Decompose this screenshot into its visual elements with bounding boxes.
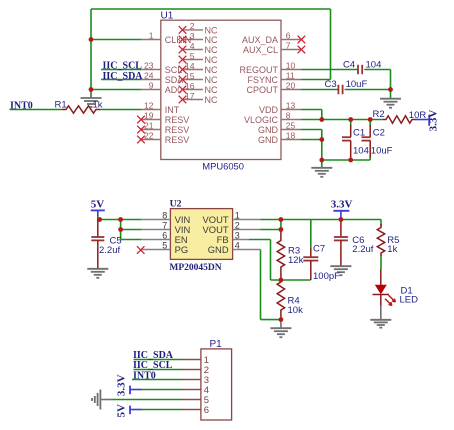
svg-text:5: 5 xyxy=(190,51,195,61)
svg-text:24: 24 xyxy=(144,70,154,80)
svg-text:AUX_DA: AUX_DA xyxy=(242,35,278,45)
svg-text:6: 6 xyxy=(162,230,167,240)
svg-text:INT0: INT0 xyxy=(10,100,33,111)
svg-text:NC: NC xyxy=(205,45,218,55)
svg-text:21: 21 xyxy=(144,120,154,130)
svg-text:PG: PG xyxy=(175,244,189,255)
svg-text:15: 15 xyxy=(185,71,195,81)
svg-text:MP20045DN: MP20045DN xyxy=(169,263,221,273)
svg-text:NC: NC xyxy=(205,25,218,35)
svg-text:3.3V: 3.3V xyxy=(331,198,353,210)
svg-text:10k: 10k xyxy=(288,305,304,316)
svg-text:17: 17 xyxy=(185,91,195,101)
svg-text:9: 9 xyxy=(149,80,154,90)
svg-text:AUX_CL: AUX_CL xyxy=(243,45,278,55)
svg-text:CLKIN: CLKIN xyxy=(165,35,192,45)
svg-text:NC: NC xyxy=(205,65,218,75)
svg-text:3.3V: 3.3V xyxy=(116,374,128,396)
svg-text:R2: R2 xyxy=(373,109,385,120)
svg-text:P1: P1 xyxy=(210,339,223,350)
svg-text:100pF: 100pF xyxy=(313,271,340,282)
svg-text:22: 22 xyxy=(144,130,154,140)
svg-text:8: 8 xyxy=(162,210,167,220)
svg-text:INT: INT xyxy=(165,105,180,115)
svg-text:6: 6 xyxy=(286,30,291,40)
svg-text:10uF: 10uF xyxy=(371,145,393,156)
svg-text:7: 7 xyxy=(162,220,167,230)
svg-text:1k: 1k xyxy=(387,244,397,255)
svg-text:5: 5 xyxy=(162,240,167,250)
svg-text:IIC_SCL: IIC_SCL xyxy=(133,360,173,371)
svg-text:14: 14 xyxy=(185,61,195,71)
svg-text:U1: U1 xyxy=(161,10,174,21)
svg-text:FSYNC: FSYNC xyxy=(247,75,278,85)
svg-text:C7: C7 xyxy=(313,244,325,255)
svg-text:GND: GND xyxy=(208,244,229,255)
svg-text:2.2uf: 2.2uf xyxy=(352,244,373,255)
svg-text:U2: U2 xyxy=(170,199,182,210)
svg-text:3: 3 xyxy=(235,230,240,240)
svg-text:C3: C3 xyxy=(325,79,337,90)
svg-text:6: 6 xyxy=(204,405,209,416)
svg-text:1: 1 xyxy=(235,210,240,220)
svg-text:104: 104 xyxy=(353,145,369,156)
svg-text:SCL: SCL xyxy=(165,65,183,75)
svg-text:25: 25 xyxy=(286,120,296,130)
svg-text:NC: NC xyxy=(205,95,218,105)
svg-text:NC: NC xyxy=(205,75,218,85)
svg-text:2.2uf: 2.2uf xyxy=(99,245,120,256)
svg-text:1k: 1k xyxy=(93,100,103,111)
svg-text:RESV: RESV xyxy=(165,135,190,145)
svg-text:REGOUT: REGOUT xyxy=(239,65,278,75)
svg-text:2: 2 xyxy=(235,220,240,230)
svg-text:18: 18 xyxy=(286,130,296,140)
svg-text:12: 12 xyxy=(144,100,154,110)
svg-text:C4: C4 xyxy=(343,59,355,70)
svg-text:IIC_SCL: IIC_SCL xyxy=(103,60,143,71)
svg-text:NC: NC xyxy=(205,85,218,95)
svg-text:2: 2 xyxy=(190,21,195,31)
svg-text:AD0: AD0 xyxy=(165,85,183,95)
svg-text:VLOGIC: VLOGIC xyxy=(244,115,279,125)
svg-text:7: 7 xyxy=(286,40,291,50)
svg-text:LED: LED xyxy=(400,295,419,306)
svg-text:C2: C2 xyxy=(373,127,385,138)
svg-text:10uF: 10uF xyxy=(346,79,368,90)
svg-text:10: 10 xyxy=(286,60,296,70)
svg-text:4: 4 xyxy=(235,240,240,250)
svg-text:NC: NC xyxy=(205,55,218,65)
svg-text:23: 23 xyxy=(144,60,154,70)
svg-text:VDD: VDD xyxy=(259,105,279,115)
svg-text:INT0: INT0 xyxy=(133,371,156,382)
svg-text:SDA: SDA xyxy=(165,75,184,85)
svg-text:IIC_SDA: IIC_SDA xyxy=(103,71,144,82)
svg-text:1: 1 xyxy=(149,30,154,40)
svg-text:11: 11 xyxy=(286,70,295,80)
svg-text:GND: GND xyxy=(258,135,279,145)
svg-text:12k: 12k xyxy=(288,255,304,266)
svg-text:RESV: RESV xyxy=(165,115,190,125)
svg-text:20: 20 xyxy=(286,80,296,90)
svg-text:19: 19 xyxy=(144,110,154,120)
svg-text:3: 3 xyxy=(190,31,195,41)
svg-text:4: 4 xyxy=(190,41,195,51)
svg-text:RESV: RESV xyxy=(165,125,190,135)
svg-text:NC: NC xyxy=(205,35,218,45)
svg-text:104: 104 xyxy=(366,59,382,70)
svg-text:R1: R1 xyxy=(55,100,67,111)
svg-text:13: 13 xyxy=(286,100,296,110)
svg-text:8: 8 xyxy=(286,110,291,120)
svg-text:5V: 5V xyxy=(116,404,128,418)
svg-text:C1: C1 xyxy=(353,127,365,138)
svg-text:CPOUT: CPOUT xyxy=(247,85,279,95)
svg-text:3.3V: 3.3V xyxy=(428,110,440,132)
svg-text:16: 16 xyxy=(185,81,195,91)
svg-text:10R: 10R xyxy=(409,110,427,121)
svg-text:5V: 5V xyxy=(91,199,105,211)
svg-text:MPU6050: MPU6050 xyxy=(202,161,244,172)
svg-text:GND: GND xyxy=(258,125,279,135)
